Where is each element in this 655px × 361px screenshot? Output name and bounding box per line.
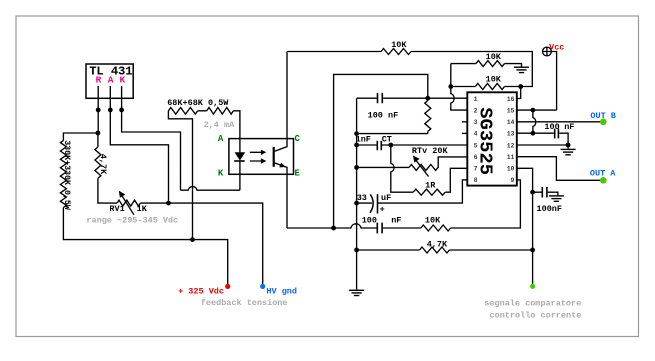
svg-text:Vcc: Vcc [549, 43, 564, 53]
svg-text:nF: nF [564, 122, 574, 132]
svg-text:13: 13 [507, 131, 515, 138]
svg-text:uF: uF [381, 193, 391, 203]
svg-text:A: A [108, 75, 114, 86]
svg-text:E: E [295, 168, 301, 178]
resistor 68K first [168, 108, 197, 115]
svg-text:330K+330K 0,5W: 330K+330K 0,5W [62, 140, 72, 211]
optocoupler U3 box [229, 139, 294, 175]
capacitor 100 nF pin1 row [378, 93, 383, 103]
terminal OUT A [600, 177, 607, 184]
svg-text:SG3525: SG3525 [474, 107, 496, 175]
svg-text:14: 14 [507, 119, 515, 126]
terminal comparator signal [530, 284, 535, 289]
svg-text:10K: 10K [486, 75, 502, 85]
TL431 pin K wire with hop [122, 86, 240, 190]
svg-text:3: 3 [474, 119, 478, 126]
ground pin10 [549, 195, 564, 197]
ground near 10K row2 [514, 66, 529, 68]
optocoupler light arrows [250, 152, 262, 161]
IC U1 SG3525 box [467, 92, 517, 185]
wire 68K feed [168, 111, 240, 240]
wire 4,7K row [357, 249, 533, 251]
wire optocoupler emitter [274, 163, 287, 228]
wire OUT B row [517, 121, 604, 123]
capacitor 33uF curved plate [370, 194, 373, 212]
wire pin10 100nF to ground [533, 192, 558, 195]
RV1 wiper arrow [121, 195, 133, 215]
resistor 10K row2 to ground [451, 64, 522, 67]
wire left rail [356, 98, 358, 250]
wire current-sense row hop over rail [287, 180, 520, 228]
svg-text:R: R [96, 75, 102, 86]
svg-text:6: 6 [474, 154, 478, 161]
wire pin15 to pin13 hop over OUT B [533, 110, 536, 133]
resistor 1R [413, 189, 445, 195]
svg-text:CT: CT [382, 135, 392, 145]
wire 33uF row to pin8 [357, 180, 468, 203]
svg-text:1K: 1K [137, 204, 148, 214]
terminal HV gnd [260, 284, 265, 289]
wire pin16 stub [517, 87, 521, 99]
svg-text:C: C [295, 134, 301, 144]
svg-text:4,7K: 4,7K [98, 154, 108, 175]
svg-text:12: 12 [507, 142, 515, 149]
wire top rail [287, 52, 532, 87]
capacitor 100nF pin10 [542, 187, 547, 198]
TL431 pin names R A K [96, 75, 126, 86]
svg-text:10: 10 [507, 166, 515, 173]
resistor 68K second [207, 108, 234, 115]
resistor 10K sense row [421, 225, 451, 231]
svg-text:K: K [218, 168, 224, 178]
svg-text:10K: 10K [391, 40, 407, 50]
svg-text:OUT A: OUT A [590, 169, 616, 179]
svg-text:5: 5 [474, 142, 478, 149]
wire to pin2 hop over pin1 row [451, 64, 468, 111]
capacitor 100nF sense row [377, 223, 382, 234]
SG3525 pin numbers [474, 96, 515, 184]
wire pin13 row [517, 133, 568, 145]
resistor 10K top rail [381, 49, 411, 55]
svg-text:15: 15 [507, 107, 515, 114]
wire CT discharge with hop [391, 145, 468, 192]
capacitor 100 nF pin13 [555, 129, 559, 139]
wire pin10 to comparator terminal [517, 168, 533, 284]
svg-text:HV gnd: HV gnd [266, 287, 297, 297]
svg-text:100nF: 100nF [537, 204, 563, 214]
Vcc symbol [543, 47, 552, 56]
wire pin12 row [517, 145, 568, 149]
svg-text:100 nF: 100 nF [368, 111, 399, 121]
svg-text:7: 7 [474, 166, 478, 173]
svg-text:K: K [119, 75, 125, 86]
optocoupler emitter arrowhead [279, 163, 286, 168]
svg-text:11: 11 [507, 154, 515, 161]
svg-text:2: 2 [474, 107, 478, 114]
svg-text:10K: 10K [486, 52, 502, 62]
resistor 4,7K row [420, 247, 450, 253]
svg-text:RTv 20K: RTv 20K [412, 146, 449, 156]
wire pin11 to OUT A [517, 157, 604, 181]
svg-text:2,4 mA: 2,4 mA [204, 120, 236, 130]
svg-text:1nF: 1nF [356, 135, 371, 145]
resistor 10K vertical pin1 [427, 98, 429, 133]
svg-text:segnale comparatore: segnale comparatore [484, 299, 581, 309]
optocoupler phototransistor base bar [273, 147, 275, 167]
optocoupler LED [239, 139, 241, 175]
svg-text:1: 1 [474, 96, 478, 103]
wire feedback loop left side [334, 74, 428, 228]
svg-text:100: 100 [362, 216, 377, 226]
RTv wiper arrow [416, 160, 429, 177]
svg-text:range ~295-345 Vdc: range ~295-345 Vdc [86, 215, 178, 225]
svg-text:1R: 1R [425, 181, 436, 191]
resistor 330K+330K [60, 141, 66, 208]
svg-text:9: 9 [511, 177, 515, 184]
resistor 10K row3 [451, 86, 521, 88]
ground pin12 [561, 148, 576, 150]
value labels [86, 40, 616, 321]
svg-text:68K+68K 0,5W: 68K+68K 0,5W [167, 98, 229, 108]
wire Vcc to pin15 [517, 52, 557, 111]
terminal OUT B [600, 119, 607, 126]
svg-text:+ 325 Vdc: + 325 Vdc [178, 287, 224, 297]
svg-text:OUT B: OUT B [590, 111, 616, 121]
svg-text:4: 4 [474, 131, 478, 138]
TL431 pin R wire [97, 86, 99, 133]
wire 10K bottom row [357, 133, 428, 135]
terminal +325Vdc [225, 284, 230, 289]
wire pin5 CT row [357, 144, 468, 146]
wire RT row [357, 157, 468, 168]
svg-text:10K: 10K [425, 216, 441, 226]
wire rail to ground [356, 250, 358, 290]
capacitor 1nF CT [377, 141, 381, 150]
pin3 stub [462, 121, 467, 123]
wire R row to 330K divider and +325V [63, 133, 227, 284]
svg-text:controllo corrente: controllo corrente [490, 310, 582, 320]
svg-text:nF: nF [391, 216, 401, 226]
svg-text:16: 16 [507, 96, 515, 103]
optocoupler pin names A C K E [218, 134, 301, 178]
svg-text:33: 33 [357, 193, 367, 203]
svg-text:100: 100 [544, 122, 559, 132]
pin4 stub [462, 132, 467, 134]
svg-text:+: + [380, 205, 385, 215]
wire pin1 row [357, 97, 468, 99]
svg-text:A: A [218, 134, 224, 144]
svg-text:feedback tensione: feedback tensione [201, 298, 288, 308]
potentiometer RV1 1K [117, 200, 140, 206]
svg-text:4,7K: 4,7K [427, 240, 448, 250]
svg-text:8: 8 [474, 177, 478, 184]
potentiometer RTv 20K [409, 164, 438, 170]
capacitor 33uF bar plate [377, 194, 379, 213]
IC TL431 box [86, 64, 133, 98]
resistor 4,7K vertical [98, 133, 263, 284]
wire optocoupler collector [274, 52, 287, 152]
ground main rail [349, 289, 364, 291]
TL431 pin A wire [110, 86, 168, 203]
svg-text:RV1: RV1 [109, 204, 124, 214]
